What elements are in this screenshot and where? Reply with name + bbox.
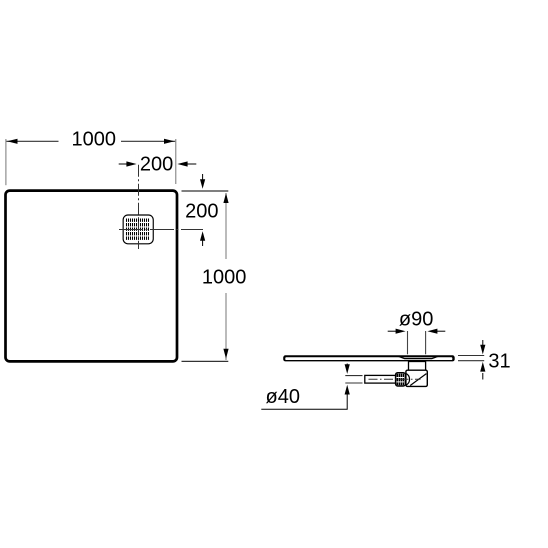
dim o40: top arrow (down) with tail (346, 364, 348, 367)
dim o40: bottom extension line (345, 382, 362, 384)
dim 200 horizontal: left arrow with tail (119, 163, 130, 165)
svg-text:ø40: ø40 (266, 386, 300, 408)
dim 31: top extension line (458, 355, 484, 357)
svg-text:31: 31 (488, 351, 510, 373)
dim 1000 right: top arrow (up) (223, 193, 228, 203)
dim 1000 right: bottom arrow (down) (223, 349, 228, 359)
dim o90: right arrow with tail (435, 330, 445, 332)
tray slab (section) (283, 355, 455, 361)
dim o40: bottom arrow (up) on leader (345, 385, 350, 395)
svg-text:ø90: ø90 (399, 308, 433, 330)
svg-text:200: 200 (185, 200, 218, 222)
dim o40: leader line (261, 392, 347, 409)
trap nut (knurled) (396, 373, 406, 386)
svg-text:1000: 1000 (72, 129, 117, 151)
dim 200 horizontal: right arrow with tail (184, 163, 196, 165)
tray outline (plan, 1000x1000 square) (6, 191, 178, 362)
svg-text:1000: 1000 (202, 267, 247, 289)
trap elbow body (406, 370, 427, 386)
drain horizontal centerline (119, 229, 203, 231)
dim 1000 top: dimension line (6, 140, 58, 142)
dim 1000 top: right extension line (175, 139, 177, 184)
drain grate hatch bars (127, 219, 149, 240)
dim o40: top extension line (345, 375, 362, 377)
elbow chamfer diagonal (410, 374, 426, 386)
svg-text:200: 200 (140, 154, 173, 176)
elbow socket arc (406, 373, 410, 385)
dim 200 vertical: top arrow (down) with tail (202, 174, 204, 181)
dim 1000 right: dimension line (225, 193, 227, 259)
drain recess dip with cover line (398, 356, 438, 359)
drain grate outer frame (123, 215, 153, 244)
nut knurl bars (397, 374, 403, 386)
dim o90: right extension line (425, 331, 427, 354)
dim 200 vertical: top extension line (182, 190, 229, 192)
dim 31: bottom extension line (458, 360, 484, 362)
drain vertical centerline (138, 165, 140, 249)
dim 31: bottom arrow (up) with tail (482, 373, 484, 380)
pipe (horizontal) (365, 375, 396, 383)
drain body below tray (409, 362, 426, 371)
dim 1000 right: bottom extension line (182, 360, 229, 362)
dim 200 vertical: bottom arrow (up) with tail (202, 239, 204, 247)
pipe centerline (369, 378, 421, 380)
dim o90: left arrow with tail (388, 330, 398, 332)
dim o90: left extension line (407, 331, 409, 354)
dim 1000 top: left extension line (5, 139, 7, 185)
dim 1000 top: left arrow (7, 139, 18, 144)
dim 31: top arrow (down) with tail (482, 340, 484, 347)
dim 1000 top: right arrow (164, 139, 175, 144)
